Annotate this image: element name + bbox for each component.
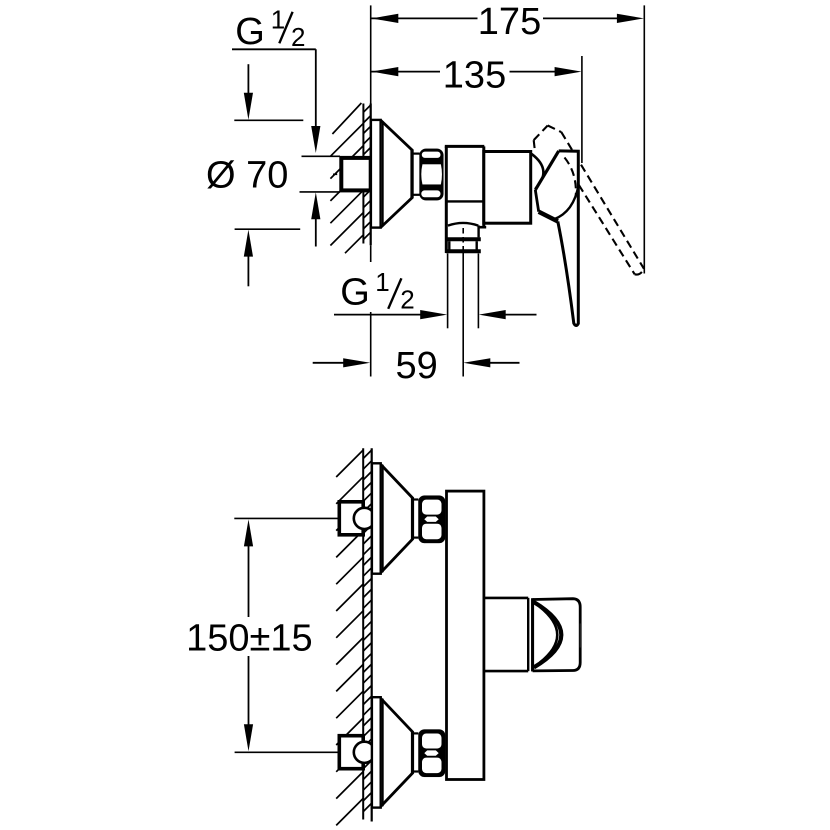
extension line upper inlet center (150): [234, 517, 341, 519]
arrowhead 135 left: [371, 67, 398, 76]
dimension line 175 right segment: [543, 17, 618, 19]
outlet thread right: [476, 241, 478, 249]
cartridge dome lower arc: [554, 185, 579, 220]
d70 upper arrowhead (down): [244, 93, 253, 120]
extension line at lever tip (175): [643, 5, 645, 273]
svg-text:2: 2: [400, 284, 414, 314]
handle lever left edge (lower view): [531, 598, 534, 671]
extension line outlet thread left: [447, 253, 449, 328]
svg-text:59: 59: [395, 345, 437, 387]
handle lever crescent inner arc (lower view): [539, 607, 557, 663]
G1/2 outlet right arrow shaft: [505, 314, 537, 316]
wall (upper view) hatched section: [330, 103, 370, 253]
escutcheon cone base edge (lower, lower view): [382, 699, 384, 807]
G1/2 upper arrowhead (down): [311, 126, 320, 153]
escutcheon cone base edge (upper, lower view): [382, 465, 384, 573]
thread stub top (upper view): [413, 153, 420, 155]
svg-text:1: 1: [271, 5, 285, 35]
escutcheon wall plate (upper, lower view): [372, 463, 381, 573]
wall inner face line (lower view): [362, 448, 364, 819]
d70 lower arrow shaft: [247, 256, 249, 287]
union nut (upper view): [419, 149, 443, 201]
arrowhead 150 bottom (down): [244, 724, 253, 751]
svg-text:150±15: 150±15: [186, 618, 313, 660]
svg-text:G: G: [235, 11, 265, 53]
outlet centerline extension (59): [462, 252, 464, 377]
thread stub bottom (lower, lower view): [413, 770, 419, 772]
svg-text:2: 2: [291, 22, 305, 52]
handle lever end outline (lower view): [533, 598, 581, 671]
G1/2 outlet leader line: [334, 314, 421, 316]
escutcheon cone face (lower, lower view): [411, 732, 414, 773]
d70 lower arrowhead (up): [244, 230, 253, 257]
arrowhead 59 right: [463, 358, 490, 367]
escutcheon cone (lower, lower view): [381, 698, 413, 806]
extension line at wall face (175/135): [370, 5, 372, 103]
handle escutcheon lower edge: [535, 190, 538, 212]
thread stub top (lower, lower view): [413, 732, 419, 734]
extension line at handle face (135): [581, 56, 583, 163]
wall mounting face line (lower view): [371, 448, 373, 821]
lever raised position (dashed) cap edge 1: [534, 126, 548, 141]
outlet centerline (dashed): [462, 228, 464, 252]
escutcheon wall plate (lower, lower view): [372, 697, 381, 807]
arrowhead 135 right: [555, 67, 582, 76]
label G1/2 (outlet) fraction slash: [388, 278, 401, 309]
outlet elbow dome arc: [448, 223, 478, 226]
thread stub bottom (upper view): [413, 194, 420, 196]
pipe end circle (upper, lower view): [354, 508, 375, 529]
150 dimension line upper segment: [248, 545, 250, 617]
svg-text:175: 175: [478, 1, 541, 43]
G1/2 inlet fitting (upper view): [341, 158, 370, 191]
dimension line 135 left segment: [372, 71, 441, 73]
union nut (lower, lower view): [418, 729, 445, 777]
svg-text:1: 1: [375, 267, 389, 297]
handle lever white body fill (upper view): [535, 151, 578, 326]
thread stub bottom (upper, lower view): [413, 536, 419, 538]
lever raised position (dashed) cap arc: [565, 158, 576, 198]
wall (lower view) hatched section: [336, 450, 372, 825]
arrowhead 175 right: [617, 14, 644, 23]
cartridge housing (upper view): [484, 152, 531, 224]
valve body (lower view): [447, 491, 484, 779]
arrowhead 59 left: [343, 358, 370, 367]
white mask behind outlet G1/2 label: [334, 262, 415, 312]
outlet end face band: [446, 249, 481, 253]
lever raised position (dashed) pivot edge: [534, 140, 535, 152]
cartridge neck end (lower view): [527, 598, 529, 671]
union nut middle facet (lower, lower view): [424, 750, 438, 755]
wall mounting face line (upper view): [370, 104, 372, 246]
lever raised position (dashed) upper edge: [561, 132, 644, 269]
dimension line 135 right segment: [510, 71, 556, 73]
thread stub top (upper, lower view): [413, 498, 419, 500]
inlet centerline dash left: [333, 173, 337, 175]
extension line outlet thread right: [477, 253, 479, 328]
escutcheon cone face (upper, lower view): [411, 498, 414, 539]
extension line fitting top: [302, 155, 341, 157]
handle escutcheon bottom edge (thick): [539, 212, 558, 222]
lever raised position (dashed) lower edge: [559, 153, 635, 275]
arrowhead 150 top (up): [244, 519, 253, 546]
handle lever blade outline (upper view): [558, 151, 579, 326]
lever raised position (dashed) cap edge 2: [548, 126, 562, 133]
body joint line (upper view): [446, 200, 484, 202]
dimension line 175 left segment: [372, 17, 478, 19]
label G1/2 (inlet) fraction slash: [279, 12, 292, 44]
G1/2 lower arrow shaft: [315, 219, 317, 247]
union nut middle facet (upper, lower view): [424, 517, 438, 522]
G1/2 lower arrowhead (up): [311, 192, 320, 219]
arrowhead 175 left: [371, 14, 398, 23]
escutcheon cone (upper view): [381, 120, 413, 227]
G1/2 union fitting (upper, lower view): [339, 502, 363, 535]
59 left arrow shaft: [313, 362, 345, 364]
150 dimension line lower segment: [248, 656, 250, 725]
G1/2 union fitting (lower, lower view): [339, 736, 363, 769]
escutcheon wall plate (upper view): [371, 120, 381, 228]
svg-text:135: 135: [443, 55, 506, 97]
valve body inlet block (upper view): [445, 146, 448, 253]
outlet thread left: [448, 241, 450, 249]
handle escutcheon front edge: [535, 151, 558, 190]
handle cap flat line (lower view): [580, 624, 582, 648]
extension line escutcheon bottom (d70): [235, 228, 301, 230]
cartridge neck bottom (lower view): [484, 670, 528, 673]
G1/2 outlet arrowhead left-pointing: [479, 310, 506, 319]
extension line wall face lower (59): [370, 245, 372, 376]
handle lever crescent outer arc (lower view): [533, 602, 561, 668]
escutcheon cone base edge (upper view): [382, 121, 384, 226]
lever raised position (dashed) tip: [635, 269, 644, 275]
G1/2 upper arrow shaft: [315, 49, 317, 127]
59 right arrow shaft: [489, 362, 520, 364]
pipe end circle (lower, lower view): [354, 742, 375, 763]
inlet centerline dash right: [378, 173, 381, 175]
outlet flange band: [446, 237, 481, 241]
outlet collar right edge: [477, 225, 479, 237]
extension line lower inlet center (150): [235, 751, 341, 753]
escutcheon cone face (upper view): [410, 150, 413, 198]
extension line fitting bottom: [300, 191, 341, 193]
G1/2 leader underline: [232, 48, 316, 50]
d70 upper arrow shaft: [247, 64, 249, 94]
union nut (upper, lower view): [418, 496, 445, 544]
cartridge neck top (lower view): [484, 597, 528, 600]
escutcheon cone (upper, lower view): [381, 464, 413, 572]
svg-text:Ø 70: Ø 70: [206, 154, 288, 196]
extension line escutcheon top (d70): [234, 119, 303, 121]
wall inner face line (upper view): [362, 104, 364, 244]
svg-text:G: G: [340, 271, 370, 313]
cartridge dome arc: [532, 154, 544, 189]
G1/2 outlet arrowhead right-pointing: [420, 310, 447, 319]
